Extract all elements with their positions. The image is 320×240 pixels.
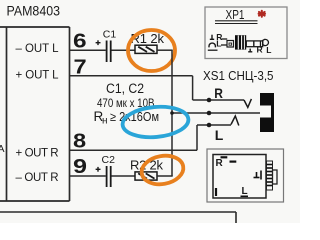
pin label +OUT R <box>16 147 59 159</box>
wire L contact <box>197 124 231 126</box>
wire pin7 <box>70 75 193 77</box>
junction dot bus tee <box>170 111 174 115</box>
svg-text:XP1: XP1 <box>226 8 245 22</box>
inset ground mark <box>254 171 262 180</box>
wire middle (common) <box>172 112 263 114</box>
svg-text:н: н <box>102 116 108 127</box>
socket XS1 body <box>260 93 274 132</box>
svg-text:L: L <box>215 127 224 143</box>
svg-text:C1: C1 <box>103 28 117 40</box>
junction dot L <box>207 123 212 128</box>
plug lead L <box>221 44 227 46</box>
pin number 7 <box>74 55 87 78</box>
capacitor C2 label <box>102 154 116 166</box>
svg-text:A: A <box>0 143 5 155</box>
resistor R2 <box>135 172 157 180</box>
resistor R2 label <box>130 158 164 173</box>
svg-text:9: 9 <box>73 155 87 178</box>
plug lug box <box>227 41 234 48</box>
svg-text:C1, C2: C1, C2 <box>106 81 144 96</box>
wire pin8 up to L contact <box>196 125 198 150</box>
inset connector ribs <box>267 161 273 190</box>
inset pad I <box>215 188 217 196</box>
resistor R1 <box>135 45 157 53</box>
svg-text:+ OUT R: + OUT R <box>16 147 59 159</box>
svg-text:L: L <box>242 186 248 197</box>
note text C1, C2 <box>106 81 144 96</box>
capacitor C2 <box>107 166 111 187</box>
wire pin6 to C1 <box>70 49 106 51</box>
op-amp U1 PAM8403 module box <box>0 27 70 201</box>
wire C2 to R2 <box>112 175 136 177</box>
XP1 double underline <box>215 21 258 24</box>
resistor R1 label <box>131 31 165 46</box>
label L <box>215 127 224 143</box>
capacitor C1 label <box>103 28 117 40</box>
text XS1 <box>203 68 274 83</box>
XP1 title <box>226 8 245 22</box>
label A (cropped at edge) <box>0 143 5 155</box>
junction dot middle <box>207 111 212 116</box>
pin number 6 <box>73 29 87 51</box>
chip title PAM8403 <box>7 4 61 19</box>
label R <box>214 85 223 101</box>
wire C1 to R1 <box>112 49 136 51</box>
inset pad R <box>216 158 224 169</box>
svg-text:– OUT R: – OUT R <box>16 172 59 184</box>
wire pin9 to C2 <box>70 175 106 177</box>
wire pin8 <box>70 149 198 151</box>
highlight ellipse around R2 <box>139 153 185 188</box>
svg-text:L: L <box>266 45 271 55</box>
switch contact V on R <box>244 99 251 108</box>
plug lead R <box>222 38 228 40</box>
pin number 9 <box>73 155 87 178</box>
photo inset socket body <box>213 155 266 199</box>
pin number 8 <box>73 129 86 152</box>
wire R2 to bus <box>157 175 173 177</box>
highlight ellipse around load note <box>121 104 189 140</box>
inset pad L <box>241 186 249 197</box>
switch contact on L <box>231 116 239 126</box>
svg-text:6: 6 <box>73 29 87 51</box>
vertical bus wire joining R1 and R2 <box>171 50 173 176</box>
plug shaft <box>246 41 262 47</box>
plug shaft label R <box>257 45 263 55</box>
capacitor C2 plus sign <box>96 167 101 172</box>
plug label R <box>216 32 222 42</box>
wire pin7 down to R contact <box>192 76 194 100</box>
plug handle <box>235 35 246 49</box>
note text load R <box>94 109 104 124</box>
junction dot R <box>207 98 212 103</box>
svg-text:– OUT L: – OUT L <box>16 43 60 55</box>
svg-text:R: R <box>257 45 263 55</box>
photo inset frame <box>207 149 284 202</box>
inset connector tab <box>273 170 278 184</box>
plug shell line <box>208 49 218 51</box>
pin label -OUT L <box>16 43 60 55</box>
svg-text:8: 8 <box>73 129 86 152</box>
inset pad bar 2 <box>230 161 237 163</box>
highlight ellipse around R1 <box>128 30 175 71</box>
plug sleeve label <box>248 49 252 52</box>
plug arch mark <box>209 43 215 47</box>
connector XP1 box <box>205 7 287 59</box>
wire R1 to bus <box>157 49 173 51</box>
note text load subscript <box>102 116 108 127</box>
svg-text:XS1 СНЦ-3,5: XS1 СНЦ-3,5 <box>203 68 274 83</box>
capacitor C1 plus sign <box>96 40 101 45</box>
plug tip <box>263 39 269 45</box>
capacitor C1 <box>107 41 111 63</box>
plug label L <box>216 38 221 48</box>
svg-text:PAM8403: PAM8403 <box>7 4 61 19</box>
svg-text:R: R <box>214 85 223 101</box>
svg-text:7: 7 <box>74 55 87 78</box>
bottom frame line <box>0 212 236 223</box>
svg-text:C2: C2 <box>102 154 116 166</box>
pin label -OUT R <box>16 172 59 184</box>
plug ground mark <box>210 35 214 40</box>
wire R contact <box>193 99 244 101</box>
plug tip label L <box>266 45 271 55</box>
svg-text:L: L <box>216 38 221 48</box>
svg-text:R: R <box>216 158 224 169</box>
svg-text:+ OUT L: + OUT L <box>16 70 60 82</box>
note text 470uF <box>97 96 155 110</box>
note text load value <box>110 110 159 124</box>
svg-text:R2 2k: R2 2k <box>130 158 164 173</box>
inset pad bar 1 <box>221 156 228 158</box>
red asterisk <box>259 11 265 17</box>
pin label +OUT L <box>16 70 60 82</box>
